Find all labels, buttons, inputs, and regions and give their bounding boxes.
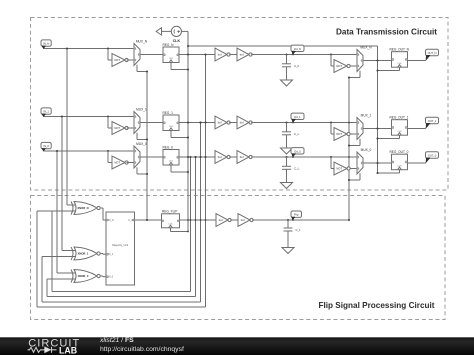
svg-text:Flip Signal Processing Circuit: Flip Signal Processing Circuit bbox=[318, 301, 434, 310]
svg-text:LAB: LAB bbox=[59, 345, 77, 355]
svg-text:IN_N: IN_N bbox=[43, 42, 49, 46]
svg-text:MUX_0: MUX_0 bbox=[136, 142, 147, 146]
svg-text:Dd_1: Dd_1 bbox=[294, 115, 301, 119]
svg-text:MUX_0: MUX_0 bbox=[361, 148, 372, 152]
svg-text:buf: buf bbox=[218, 155, 222, 159]
svg-text:CLK: CLK bbox=[169, 126, 174, 128]
svg-text:REG_N: REG_N bbox=[163, 43, 175, 47]
svg-text:MUX_1: MUX_1 bbox=[361, 114, 372, 118]
svg-text:Dd_0: Dd_0 bbox=[294, 149, 301, 153]
svg-text:buf: buf bbox=[240, 155, 244, 159]
svg-text:OUT_0: OUT_0 bbox=[428, 154, 437, 158]
svg-text:XNOR_0: XNOR_0 bbox=[78, 274, 89, 278]
svg-text:Mayority_Unit: Mayority_Unit bbox=[112, 243, 128, 247]
svg-text:buf: buf bbox=[219, 218, 223, 222]
svg-text:buf: buf bbox=[241, 218, 245, 222]
svg-text:NOT: NOT bbox=[114, 161, 120, 165]
svg-text:CLK: CLK bbox=[173, 39, 181, 43]
svg-text:CLK: CLK bbox=[398, 63, 403, 65]
svg-text:CLK: CLK bbox=[169, 161, 174, 163]
svg-text:Dd_N: Dd_N bbox=[294, 47, 301, 51]
svg-text:buf: buf bbox=[218, 121, 222, 125]
svg-text:Flip: Flip bbox=[294, 213, 299, 217]
svg-text:xlist21 / FS: xlist21 / FS bbox=[99, 337, 134, 344]
svg-text:IN_1: IN_1 bbox=[108, 253, 114, 256]
svg-text:buf: buf bbox=[240, 53, 244, 57]
svg-text:REG_OUT_N: REG_OUT_N bbox=[390, 48, 410, 52]
svg-text:IN_N: IN_N bbox=[108, 219, 114, 222]
svg-text:XNOR_1: XNOR_1 bbox=[78, 252, 89, 256]
svg-text:CLK: CLK bbox=[169, 223, 174, 225]
svg-text:NOT: NOT bbox=[114, 58, 120, 62]
svg-text:C_L: C_L bbox=[294, 132, 300, 136]
svg-text:CLK: CLK bbox=[169, 58, 174, 60]
svg-text:C_L: C_L bbox=[294, 167, 300, 171]
svg-text:MUX_N: MUX_N bbox=[360, 46, 372, 50]
svg-text:buf: buf bbox=[218, 53, 222, 57]
svg-text:NOT: NOT bbox=[336, 132, 342, 136]
svg-text:NOT: NOT bbox=[336, 167, 342, 171]
svg-text:NOT: NOT bbox=[336, 64, 342, 68]
svg-text:REG_OUT_1: REG_OUT_1 bbox=[390, 116, 409, 120]
svg-text:C_b: C_b bbox=[294, 64, 300, 68]
svg-text:REG_OUT_0: REG_OUT_0 bbox=[390, 150, 409, 154]
svg-text:buf: buf bbox=[240, 121, 244, 125]
svg-text:OUT_1: OUT_1 bbox=[428, 119, 437, 123]
svg-text:Data Transmission Circuit: Data Transmission Circuit bbox=[336, 28, 437, 37]
svg-text:http://circuitlab.com/chnqysf: http://circuitlab.com/chnqysf bbox=[100, 346, 184, 353]
svg-text:NOT: NOT bbox=[114, 126, 120, 130]
svg-text:C_L: C_L bbox=[296, 228, 302, 232]
svg-text:REG_FLIP: REG_FLIP bbox=[162, 209, 177, 213]
svg-text:REG_0: REG_0 bbox=[163, 145, 174, 149]
svg-text:MUX_1: MUX_1 bbox=[136, 108, 147, 112]
svg-text:REG_1: REG_1 bbox=[163, 111, 174, 115]
svg-text:IN_0: IN_0 bbox=[43, 144, 49, 148]
svg-text:OUT_N: OUT_N bbox=[428, 51, 437, 55]
svg-text:IN_1: IN_1 bbox=[43, 110, 49, 114]
svg-text:MUX_N: MUX_N bbox=[136, 40, 148, 44]
svg-text:IN_0: IN_0 bbox=[108, 276, 114, 279]
svg-text:XNOR_N: XNOR_N bbox=[77, 206, 88, 210]
svg-text:CLK: CLK bbox=[398, 131, 403, 133]
svg-text:CLK: CLK bbox=[398, 165, 403, 167]
